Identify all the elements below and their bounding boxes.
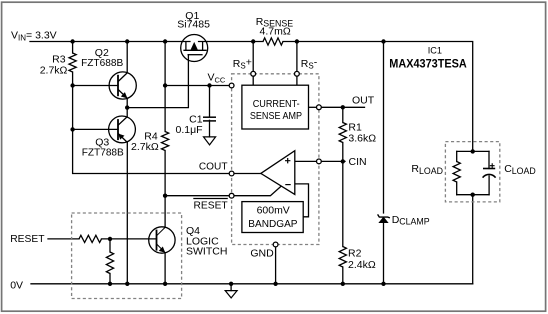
svg-text:SWITCH: SWITCH [186, 246, 227, 258]
wire R1 top lead [342, 107, 344, 122]
svg-text:BANDGAP: BANDGAP [248, 218, 297, 230]
node Q3 base [70, 127, 74, 131]
wire RESET node to pin [165, 195, 229, 197]
node rail RS+ [251, 39, 255, 43]
node 0V R2 [341, 282, 345, 286]
wire RESET pin to comparator [234, 187, 281, 196]
pin COUT [229, 171, 234, 176]
resistor RSENSE [263, 38, 283, 45]
pin VCC [229, 83, 234, 88]
svg-text:OUT: OUT [352, 95, 375, 107]
node RESET resistor junction [108, 237, 112, 241]
node rail DCLAMP [381, 39, 385, 43]
node 0V DCLAMP [381, 282, 385, 286]
wire C1 top lead [209, 86, 211, 117]
wire gate node to Q1 gate [127, 55, 188, 108]
wire comparator plus input to CIN pin [295, 160, 317, 162]
node rail R3 [70, 39, 74, 43]
svg-text:RESET: RESET [10, 233, 45, 245]
node 0V pulldown [108, 282, 112, 286]
wire RS- lead [296, 42, 298, 72]
wire DCLAMP vertical upper [383, 42, 385, 214]
wire VCC vertical from rail [164, 42, 166, 132]
svg-text:2.7kΩ: 2.7kΩ [40, 64, 68, 76]
node rail VCC branch [163, 39, 167, 43]
wire Q2 emitter to node [126, 98, 128, 116]
transistor Q1 MOSFET [181, 35, 208, 62]
wire R2 bottom lead [342, 267, 344, 284]
svg-text:DCLAMP: DCLAMP [392, 214, 430, 227]
ground (C1) [204, 137, 216, 145]
resistor pulldown [106, 252, 113, 274]
wire Q3 base [73, 128, 118, 130]
load dashed box [445, 142, 499, 202]
svg-text:CURRENT-: CURRENT- [253, 98, 300, 110]
wire C1 bottom lead [209, 120, 211, 137]
wire GND pin to 0V [275, 247, 277, 284]
svg-text:FZT788B: FZT788B [82, 147, 124, 159]
capacitor C1 [203, 117, 216, 121]
node CIN R1 R2 [341, 159, 345, 163]
wire right vertical load box to 0V rail [472, 195, 474, 284]
wire top rail RSENSE to right corner, down to load box [283, 42, 473, 152]
node rail Q2 collector [125, 39, 129, 43]
wire pulldown resistor bottom lead [109, 274, 111, 284]
svg-text:VIN= 3.3V: VIN= 3.3V [11, 29, 57, 42]
wire 0V rail [31, 283, 473, 285]
svg-text:CLOAD: CLOAD [504, 163, 536, 176]
wire Q4 emitter to 0V [164, 253, 166, 284]
wire load box bottom [457, 194, 489, 196]
wire OUT stub [321, 106, 364, 108]
pin OUT [317, 105, 322, 110]
Q4 logic switch dashed box [72, 213, 182, 299]
node rail RS- [295, 39, 299, 43]
pin RS+ [251, 71, 256, 76]
ground (0V rail) [225, 291, 237, 298]
svg-text:Si7485: Si7485 [177, 19, 210, 31]
svg-text:MAX4373TESA: MAX4373TESA [389, 57, 467, 71]
resistor R4 [162, 132, 169, 151]
resistor R1 [339, 123, 346, 143]
wire CLOAD leads [488, 151, 490, 194]
svg-text:3.6kΩ: 3.6kΩ [348, 132, 376, 144]
node VCC [163, 83, 167, 87]
svg-text:R2: R2 [348, 248, 362, 260]
node C1 tap [207, 83, 211, 87]
wire load box top [457, 150, 489, 152]
wire comparator minus input to bandgap [295, 184, 309, 217]
wire CIN stub [321, 160, 345, 162]
wire R1 bottom lead [342, 143, 344, 162]
IC1 dashed box [232, 74, 319, 245]
pin RESET [229, 193, 234, 198]
svg-text:2.7kΩ: 2.7kΩ [131, 141, 159, 153]
svg-text:2.4kΩ: 2.4kΩ [348, 259, 376, 271]
wire top rail Q1 to RSENSE [208, 41, 263, 43]
node Q2 base [70, 83, 74, 87]
wire ground symbol stem [230, 284, 232, 291]
wire DCLAMP vertical lower [383, 223, 385, 284]
pin CIN [317, 159, 322, 164]
wire amp output to OUT pin [308, 106, 316, 108]
wire Q3 collector to 0V [126, 143, 128, 284]
current-sense amp box [242, 85, 309, 129]
svg-text:0.1μF: 0.1μF [176, 124, 203, 136]
wire RS- pin to amp box [296, 76, 298, 85]
wire R3 bottom to COUT line corner and COUT wire [73, 72, 230, 174]
svg-text:RESET: RESET [194, 200, 229, 212]
svg-text:SENSE AMP: SENSE AMP [250, 110, 302, 122]
op-amp comparator [261, 151, 295, 195]
pin RS- [295, 71, 300, 76]
svg-text:IC1: IC1 [428, 46, 442, 56]
wire RESET resistor to Q4 base [102, 238, 157, 240]
node 0V Q3 [125, 282, 129, 286]
resistor R3 [69, 53, 76, 72]
svg-text:0V: 0V [10, 280, 23, 292]
wire R4 bottom to Q4 collector [164, 151, 166, 228]
wire RLOAD leads [456, 151, 458, 194]
wire RS+ pin to amp box [252, 76, 254, 85]
svg-text:COUT: COUT [199, 161, 228, 173]
resistor RLOAD [453, 162, 460, 183]
svg-text:FZT688B: FZT688B [81, 57, 123, 69]
node gate drive [125, 105, 129, 109]
wire VIN top rail left [30, 41, 181, 43]
node RESET tap [163, 194, 167, 198]
node 0V ground symbol [229, 282, 233, 286]
resistor R2 [339, 247, 346, 268]
svg-text:CIN: CIN [349, 156, 367, 168]
wire pulldown resistor top lead [109, 239, 111, 252]
resistor RESET series [79, 235, 102, 242]
svg-text:RLOAD: RLOAD [411, 163, 443, 176]
transistor Q4 [149, 227, 175, 253]
transistor Q3 [109, 116, 136, 143]
pin GND [273, 242, 278, 247]
wire RS+ lead [252, 42, 254, 72]
capacitor CLOAD [483, 163, 496, 177]
transistor Q2 [109, 72, 136, 99]
node 0V GND pin [273, 282, 277, 286]
svg-text:600mV: 600mV [257, 204, 290, 216]
node OUT R1 [341, 105, 345, 109]
wire RESET input [48, 238, 79, 240]
wire Q2 collector to rail [126, 42, 128, 73]
bandgap box [242, 202, 303, 233]
wire R2 top lead from CIN node [342, 161, 344, 246]
node 0V Q4 [163, 282, 167, 286]
wire Q2 base [73, 85, 118, 87]
diode DCLAMP [378, 214, 390, 222]
svg-text:4.7mΩ: 4.7mΩ [260, 25, 291, 37]
svg-text:GND: GND [250, 247, 274, 259]
wire comparator output to COUT pin [234, 173, 261, 175]
node load top [471, 149, 475, 153]
wire VCC to pin [165, 85, 229, 87]
node load bottom [471, 193, 475, 197]
wire R3 branch top [72, 42, 74, 54]
